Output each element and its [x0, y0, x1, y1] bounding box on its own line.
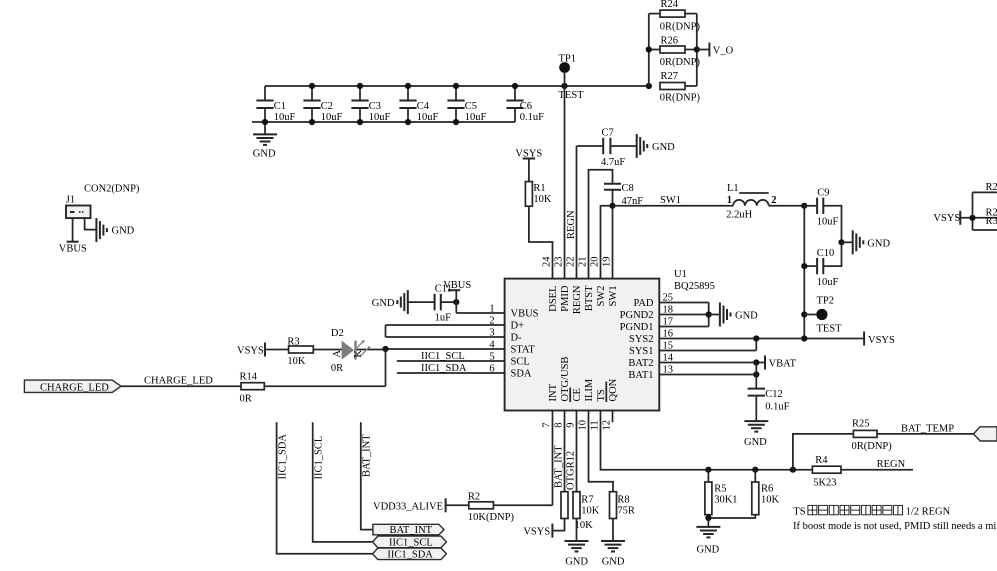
wire SW2 pin20 [601, 206, 613, 279]
svg-text:10K(DNP): 10K(DNP) [468, 512, 515, 523]
resistor R7 [573, 492, 600, 541]
pin 19 SW1 [602, 257, 620, 307]
pin 2 D+ [386, 315, 525, 331]
svg-text:SDA: SDA [511, 369, 532, 380]
svg-text:BAT_TEMP: BAT_TEMP [901, 423, 954, 434]
svg-text:0R(DNP): 0R(DNP) [660, 57, 701, 68]
wire PAD/PGND bracket [708, 303, 710, 327]
svg-text:R7: R7 [581, 495, 593, 506]
wire VBUS node to pin 1 [455, 302, 457, 313]
svg-text:U1: U1 [674, 269, 687, 280]
capacitor C5 [447, 86, 486, 123]
capacitor C11 [408, 284, 457, 324]
port IIC1_SCL flag [373, 536, 447, 548]
pin 20 SW2 [590, 257, 608, 307]
svg-text:IIC1_SDA: IIC1_SDA [421, 363, 467, 374]
svg-text:GND: GND [253, 148, 276, 159]
svg-text:SW2: SW2 [596, 286, 607, 307]
svg-text:10: 10 [578, 420, 589, 431]
svg-text:0R: 0R [240, 393, 252, 404]
svg-text:GND: GND [112, 226, 135, 237]
capacitor C3 [351, 86, 390, 123]
svg-text:11: 11 [590, 420, 601, 430]
svg-text:BTST: BTST [584, 285, 595, 311]
svg-text:R14: R14 [240, 372, 258, 383]
svg-text:10uF: 10uF [817, 217, 839, 228]
svg-text:10uF: 10uF [465, 112, 487, 123]
svg-text:CE: CE [572, 388, 583, 401]
svg-text:REGN: REGN [877, 459, 906, 470]
wire J1 pin1 to VBUS port [72, 218, 74, 242]
svg-text:GND: GND [735, 311, 758, 322]
svg-text:8: 8 [554, 422, 565, 427]
ground below R8 [601, 541, 625, 567]
svg-text:GND: GND [697, 544, 720, 555]
svg-text:V_O: V_O [713, 46, 734, 57]
svg-text:18: 18 [663, 305, 674, 316]
wire IIC1_SCL stub [313, 422, 373, 542]
node C10 tap [801, 263, 807, 269]
svg-text:1uF: 1uF [435, 312, 452, 323]
svg-text:REGN: REGN [572, 285, 583, 314]
svg-text:PMID: PMID [560, 285, 571, 312]
svg-text:K: K [353, 350, 364, 358]
svg-text:CHARGE_LED: CHARGE_LED [40, 382, 109, 393]
svg-text:BAT_INT: BAT_INT [553, 445, 564, 488]
svg-text:GND: GND [867, 238, 890, 249]
pin 11 TS [590, 389, 608, 430]
svg-text:10uF: 10uF [817, 277, 839, 288]
pin 21 BTST [578, 257, 596, 312]
svg-text:22: 22 [566, 257, 577, 268]
svg-text:0R(DNP): 0R(DNP) [852, 441, 893, 452]
resistor R6 [708, 470, 779, 518]
ground below R7 [565, 541, 589, 567]
svg-text:BQ25895: BQ25895 [674, 281, 715, 292]
svg-text:VSYS: VSYS [523, 526, 550, 537]
svg-text:1: 1 [727, 195, 732, 206]
svg-text:VBUS: VBUS [59, 243, 87, 254]
pin 10 ILIM [578, 378, 596, 430]
svg-text:0.1uF: 0.1uF [765, 401, 789, 412]
wire R1 to DSEL pin 24 [529, 206, 553, 278]
svg-text:DSEL: DSEL [548, 286, 559, 312]
svg-text:PAD: PAD [633, 298, 653, 309]
svg-text:10uF: 10uF [369, 112, 391, 123]
svg-text:GND: GND [602, 556, 625, 567]
connector J1 [66, 183, 140, 218]
wire IIC1_SDA stub [277, 422, 373, 554]
wire top rail VBUS/PMID [265, 85, 649, 87]
svg-text:C4: C4 [417, 101, 430, 112]
svg-text:GND: GND [744, 437, 767, 448]
svg-text:0R(DNP): 0R(DNP) [660, 92, 701, 103]
svg-text:R6: R6 [761, 484, 773, 495]
svg-text:21: 21 [578, 257, 589, 268]
power port VSYS right [864, 332, 895, 346]
svg-text:C10: C10 [817, 248, 835, 259]
svg-text:5K23: 5K23 [813, 477, 836, 488]
wire J1 pin2 to ground [85, 218, 97, 230]
node BAT_TEMP tap [790, 467, 796, 473]
pin 3 D- [386, 327, 523, 343]
wire BAT_INT stub [361, 422, 373, 529]
svg-text:C9: C9 [817, 188, 829, 199]
svg-text:R27: R27 [661, 71, 679, 82]
svg-text:10K: 10K [533, 194, 552, 205]
resistor R1 [525, 159, 552, 207]
svg-text:4: 4 [489, 339, 495, 350]
svg-text:INT: INT [548, 383, 559, 401]
capacitor C9 [804, 188, 841, 243]
svg-text:OTGR12: OTGR12 [565, 451, 576, 490]
wire bottom rail GND [252, 121, 515, 123]
port BAT_TEMP flag [974, 427, 997, 441]
svg-text:TS: TS [793, 507, 805, 518]
svg-text:D+: D+ [511, 321, 525, 332]
svg-text:VBUS: VBUS [443, 280, 471, 291]
svg-text:7: 7 [542, 422, 553, 427]
wire TS pin11 trunk [601, 411, 813, 470]
svg-text:75R: 75R [617, 505, 635, 516]
pin 12 QON [602, 378, 620, 430]
resistor R26 [646, 35, 701, 68]
svg-text:TEST: TEST [559, 90, 585, 101]
svg-text:3: 3 [489, 327, 494, 338]
op-amp U1 BQ25895 body [505, 269, 715, 410]
wire CE pin9 [576, 411, 578, 492]
node BAT2 [753, 359, 759, 365]
svg-text:VDD33_ALIVE: VDD33_ALIVE [373, 501, 443, 512]
pin 5 SCL [397, 351, 530, 367]
svg-text:SCL: SCL [511, 357, 530, 368]
node R5 tap [705, 467, 711, 473]
resistor R5 [705, 470, 738, 518]
svg-text:D2: D2 [331, 328, 344, 339]
svg-text:If boost mode is not used, PMI: If boost mode is not used, PMID still ne… [793, 521, 997, 532]
svg-text:10K: 10K [761, 495, 780, 506]
node PGND [706, 311, 712, 317]
wire D+ to D- bracket [385, 325, 387, 337]
svg-text:15: 15 [663, 341, 674, 352]
svg-text:SYS1: SYS1 [629, 346, 654, 357]
svg-text:CHARGE_LED: CHARGE_LED [144, 375, 213, 386]
resistor R14 [240, 372, 386, 405]
svg-text:4.7uF: 4.7uF [601, 157, 625, 168]
node TP2 tap [801, 311, 807, 317]
svg-text:TP2: TP2 [817, 296, 835, 307]
pin 4 STAT [386, 339, 536, 355]
svg-text:10uF: 10uF [274, 112, 296, 123]
pin 17 PGND1 [620, 317, 709, 333]
resistor R24 [649, 0, 701, 32]
node R6 tap [752, 467, 758, 473]
node STAT [382, 346, 388, 352]
pin 23 PMID [554, 257, 572, 312]
svg-text:R24: R24 [661, 0, 679, 10]
svg-text:6: 6 [489, 363, 494, 374]
node SW1 [609, 203, 615, 209]
svg-text:STAT: STAT [511, 345, 536, 356]
svg-text:CON2(DNP): CON2(DNP) [84, 183, 140, 194]
svg-text:BAT_INT: BAT_INT [390, 525, 433, 536]
pin 14 BAT2 [628, 353, 765, 369]
svg-text:12: 12 [602, 420, 613, 431]
svg-text:R3: R3 [287, 337, 299, 348]
power port VBAT [765, 356, 797, 370]
svg-text:13: 13 [663, 365, 674, 376]
junction dots on top rail [309, 83, 652, 89]
pin 22 REGN [566, 257, 584, 315]
ground at C9/C10 [842, 230, 891, 254]
svg-text:1: 1 [489, 303, 494, 314]
note text chinese (CJK drawn as glyph boxes for font-safety) [793, 505, 950, 517]
svg-text:J1: J1 [66, 195, 75, 206]
power port VBUS at J1 [59, 242, 87, 255]
power port VSYS at OTG pull [523, 524, 552, 538]
pin 24 DSEL [542, 256, 560, 312]
svg-text:10K: 10K [581, 505, 600, 516]
node V_O top [801, 203, 807, 209]
svg-text:R5: R5 [714, 484, 726, 495]
wire right edge resistor bank [960, 192, 997, 230]
port CHARGE_LED flag [24, 380, 121, 393]
node BAT1 [753, 371, 759, 377]
svg-text:20: 20 [590, 257, 601, 268]
svg-text:14: 14 [663, 353, 674, 364]
svg-text:C12: C12 [765, 389, 783, 400]
svg-text:R2: R2 [468, 492, 480, 503]
svg-text:IIC1_SCL: IIC1_SCL [313, 436, 324, 480]
capacitor C12 [748, 389, 790, 422]
capacitor C7 (REGN bypass) [577, 127, 637, 167]
resistor R8 [610, 492, 635, 541]
svg-text:24: 24 [542, 256, 553, 267]
svg-text:C2: C2 [321, 101, 333, 112]
svg-text:16: 16 [663, 329, 674, 340]
pin 25 PAD [633, 293, 708, 309]
svg-text:C8: C8 [622, 183, 634, 194]
wire BTST pin21 loop to C8 [589, 170, 613, 279]
svg-text:VSYS: VSYS [237, 346, 264, 357]
svg-text:IIC1_SCL: IIC1_SCL [421, 351, 465, 362]
ground below C1 [253, 122, 277, 159]
svg-text:SW1: SW1 [608, 286, 619, 307]
wire BAT to C12 [755, 363, 757, 389]
svg-text:QON: QON [608, 378, 619, 401]
svg-text:C1: C1 [274, 101, 286, 112]
capacitor C8 [604, 183, 643, 207]
svg-text:5: 5 [489, 351, 494, 362]
svg-text:SW1: SW1 [660, 195, 681, 206]
svg-text:10uF: 10uF [417, 112, 439, 123]
node R5/R6 join [705, 515, 711, 521]
svg-text:REGN: REGN [566, 210, 577, 239]
svg-text:VBAT: VBAT [769, 358, 797, 369]
wire left vertical of R24/R26/R27 [648, 14, 650, 86]
pin 13 BAT1 [628, 365, 756, 381]
ground at J1 [96, 218, 134, 242]
svg-text:2: 2 [489, 315, 494, 326]
capacitor C4 [399, 86, 438, 123]
svg-text:GND: GND [565, 556, 588, 567]
svg-text:VBUS: VBUS [511, 309, 539, 320]
svg-text:10K: 10K [287, 356, 306, 367]
inductor L1 [726, 183, 776, 220]
svg-text:VSYS: VSYS [933, 213, 960, 224]
wire REGN pin22 to C7 [576, 146, 578, 279]
test point TP2 [804, 296, 842, 335]
svg-text:30K1: 30K1 [714, 495, 737, 506]
svg-text:PGND2: PGND2 [620, 310, 654, 321]
svg-text:0R(DNP): 0R(DNP) [660, 21, 701, 32]
ground at C7 [637, 134, 675, 158]
LED D2 [331, 328, 386, 374]
wire OTG pin8 [565, 411, 577, 492]
pin 7 INT [542, 383, 560, 427]
pin 9 CE [566, 388, 584, 428]
wire right vertical of R24/R26/R27 [696, 14, 698, 86]
wire CHARGE_LED to R14 [121, 375, 241, 386]
wire SW1 to L1 [613, 205, 734, 207]
svg-text:R28: R28 [986, 182, 997, 193]
ground below R5/R6 [696, 518, 720, 555]
power port V_O [697, 43, 734, 57]
svg-text:IIC1_SDA: IIC1_SDA [387, 549, 433, 560]
svg-text:GND: GND [372, 298, 395, 309]
svg-text:ILIM: ILIM [584, 378, 595, 401]
svg-text:R26: R26 [661, 35, 679, 46]
svg-text:BAT1: BAT1 [628, 370, 653, 381]
ground below C12 [744, 421, 768, 448]
wire TP1/PMID to U1 pin 23 [564, 86, 566, 279]
pin 8 OTG/USB [554, 357, 572, 428]
svg-text:R1: R1 [533, 183, 545, 194]
resistor R12 pull (10K on OTG) [552, 492, 593, 531]
wire SW1 pin19 [612, 206, 614, 279]
node C9/C10 gnd join [838, 239, 844, 245]
svg-text:9: 9 [566, 422, 577, 427]
svg-text:2: 2 [771, 195, 776, 206]
capacitor C2 [303, 86, 342, 123]
wire output node down to SYS rail [803, 206, 805, 339]
svg-text:A: A [332, 350, 343, 358]
svg-text:IIC1_SCL: IIC1_SCL [389, 537, 433, 548]
test point TP1 [559, 54, 585, 101]
svg-text:25: 25 [663, 293, 674, 304]
wire SYS1 to SYS2 [755, 339, 757, 351]
svg-text:SYS2: SYS2 [629, 334, 654, 345]
svg-text:VSYS: VSYS [868, 335, 895, 346]
ground at PGND [709, 303, 758, 327]
capacitor C10 [804, 242, 841, 288]
svg-text:C5: C5 [465, 101, 477, 112]
svg-text:D-: D- [511, 333, 523, 344]
svg-text:C3: C3 [369, 101, 381, 112]
resistor R25 [852, 419, 974, 452]
power port VSYS right edge [933, 211, 960, 225]
resistor R27 [660, 71, 701, 103]
resistor R4 [812, 455, 913, 488]
svg-text:R8: R8 [617, 495, 629, 506]
svg-text:17: 17 [663, 317, 674, 328]
svg-text:PGND1: PGND1 [620, 322, 654, 333]
pin 6 SDA [397, 363, 532, 379]
power port VDD33_ALIVE [373, 498, 446, 512]
resistor R3 [265, 337, 337, 367]
capacitor C1 [256, 86, 295, 123]
port IIC1_SDA flag [373, 548, 447, 560]
svg-text:R25: R25 [852, 419, 870, 430]
capacitor C6 [506, 86, 544, 123]
pin 1 VBUS [456, 303, 538, 319]
node SYS [753, 335, 759, 341]
svg-text:2.2uH: 2.2uH [726, 210, 752, 221]
svg-text:IIC1_SDA: IIC1_SDA [277, 434, 288, 480]
svg-text:BAT_INT: BAT_INT [362, 434, 373, 477]
svg-text:L1: L1 [727, 183, 739, 194]
junction dots on bottom rail [262, 119, 459, 125]
pin 18 PGND2 [620, 305, 709, 321]
svg-text:1/2 REGN: 1/2 REGN [906, 507, 951, 518]
svg-text:0.1uF: 0.1uF [520, 112, 544, 123]
ground at C11 (mirrored) [372, 290, 408, 314]
wire ILIM pin10 [589, 411, 614, 492]
wire L1 to output node [769, 205, 805, 207]
svg-text:TEST: TEST [817, 323, 843, 334]
svg-text:R30: R30 [986, 216, 997, 227]
svg-text:23: 23 [554, 257, 565, 268]
svg-text:C7: C7 [602, 127, 614, 138]
pin 15 SYS1 [629, 341, 756, 357]
power port VSYS at R1 [515, 148, 542, 159]
wire INT pin7 [553, 411, 565, 506]
svg-text:19: 19 [602, 257, 613, 268]
svg-text:0R: 0R [331, 363, 343, 374]
svg-text:C6: C6 [520, 101, 532, 112]
power port VBUS at C11 [443, 280, 471, 302]
svg-text:R4: R4 [815, 455, 828, 466]
node SYS TP2 column [801, 335, 807, 341]
svg-text:GND: GND [652, 142, 675, 153]
port BAT_INT flag [373, 524, 444, 536]
resistor R2 [446, 492, 553, 524]
wire STAT node down to R14 line [385, 349, 387, 386]
pin 16 SYS2 [629, 329, 864, 345]
node VBUS [453, 299, 459, 305]
wire branch to R25 [793, 434, 854, 470]
power port VSYS at R3 [237, 343, 265, 357]
svg-text:BAT2: BAT2 [628, 358, 653, 369]
svg-text:10uF: 10uF [321, 112, 343, 123]
